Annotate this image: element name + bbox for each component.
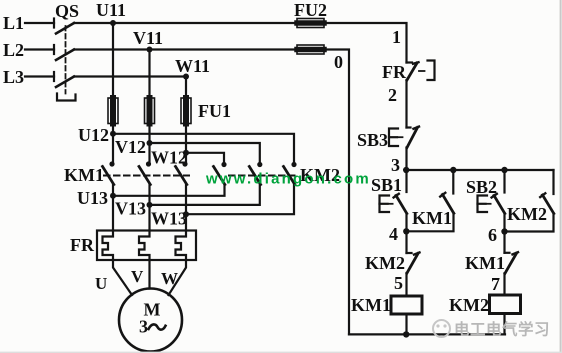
wire SB2 to node 6 <box>503 214 505 232</box>
svg-text:V: V <box>131 267 144 286</box>
contactor KM2 NC interlock <box>407 231 420 273</box>
wire phase line 1 to control <box>324 23 407 63</box>
wire W fuse to W12 <box>185 124 187 153</box>
contactor KM2 main contact 3 <box>284 162 297 185</box>
wire U13 to FR <box>112 196 114 231</box>
wire bottom rail <box>349 333 505 335</box>
switch QS linkage <box>57 26 76 101</box>
button SB1 NO start forward <box>380 194 407 214</box>
contactor KM1 main contact U <box>103 161 115 184</box>
svg-text:电工电气学习: 电工电气学习 <box>454 320 550 339</box>
fuse FU1 phase U <box>108 98 118 124</box>
svg-text:QS: QS <box>55 1 79 21</box>
thermal relay FR heater V <box>139 231 150 261</box>
contactor KM1 aux label <box>412 208 452 228</box>
svg-text:6: 6 <box>488 225 497 245</box>
svg-text:U13: U13 <box>77 188 108 208</box>
svg-text:KM2: KM2 <box>365 253 405 273</box>
contactor KM2 linkage <box>229 175 299 177</box>
contactor KM2 aux label <box>507 204 547 224</box>
node W12 <box>151 148 189 168</box>
wire to KM1 aux <box>452 170 454 194</box>
svg-text:L3: L3 <box>3 67 24 87</box>
svg-text:KM1: KM1 <box>351 295 391 315</box>
contactor KM2 auxiliary NO contact <box>540 193 554 213</box>
thermal relay FR box <box>97 231 196 261</box>
button SB1 label <box>371 175 402 195</box>
fuse FU2 label <box>294 0 327 20</box>
svg-text:L2: L2 <box>3 40 24 60</box>
contactor KM2 interlock label <box>365 253 405 273</box>
relay FR NC contact <box>407 62 419 80</box>
svg-text:0: 0 <box>334 52 343 72</box>
wire W12 to KM1 contact <box>185 153 187 164</box>
fuse FU2 upper <box>297 19 324 28</box>
svg-text:1: 1 <box>392 27 401 47</box>
wire L1 to FU2 <box>74 22 297 24</box>
wire FR to motor W <box>169 260 187 295</box>
wire KM1 V to V13 <box>148 185 150 205</box>
watermark green <box>205 171 371 188</box>
node U13 <box>77 188 116 208</box>
watermark logo <box>433 320 450 337</box>
wire V11 down <box>148 50 150 99</box>
contactor KM2 main contact 1 <box>214 162 227 185</box>
node bottom junction <box>403 331 409 337</box>
wire node3 to SB1 <box>405 170 407 192</box>
wire V13 to FR <box>148 205 150 231</box>
wire U12 cross to KM2 contact 3 <box>113 134 294 164</box>
svg-text:FU2: FU2 <box>294 0 327 20</box>
node 4 junction <box>389 224 409 244</box>
switch QS label <box>55 1 79 21</box>
wire U12 to KM1 contact <box>112 134 114 164</box>
node U11 <box>96 0 126 26</box>
wire KM2 NC to coil <box>405 273 407 296</box>
node 3 junction <box>403 167 409 173</box>
svg-text:U11: U11 <box>96 0 126 20</box>
wire U fuse to U12 <box>112 124 114 134</box>
node L2 label <box>3 40 24 60</box>
node W13 <box>151 209 189 229</box>
wire node3 rail to SB2 <box>503 170 505 193</box>
watermark gray text <box>454 320 550 339</box>
wire rail to KM2 aux <box>552 170 554 194</box>
wire KM1 aux to node 4 <box>407 213 454 231</box>
node 0 label <box>334 52 343 72</box>
svg-text:SB1: SB1 <box>371 175 402 195</box>
wire V12 to KM1 contact <box>148 143 150 164</box>
wire W11 down <box>185 77 187 99</box>
wire W12 cross to KM2 contact 1 <box>186 153 224 164</box>
switch QS pole 3 <box>54 72 74 87</box>
svg-text:FR: FR <box>70 235 95 255</box>
node W terminal label <box>161 269 178 288</box>
switch QS pole 1 <box>54 19 74 34</box>
wire FR to SB3 <box>405 80 407 128</box>
contactor KM1 interlock label <box>465 253 505 273</box>
node V12 <box>115 137 153 157</box>
contactor KM1 label <box>64 165 104 185</box>
svg-text:SB3: SB3 <box>357 130 388 150</box>
relay FR trip symbol <box>419 61 435 81</box>
svg-text:2: 2 <box>388 85 397 105</box>
wire KM2 contact 2 to V13 <box>150 185 260 205</box>
fuse FU1 phase W <box>181 98 191 124</box>
wire KM1 W to W13 <box>185 185 187 215</box>
node KM1 aux top junction <box>450 167 456 173</box>
wire W13 to FR <box>185 214 187 230</box>
svg-text:KM2: KM2 <box>507 204 547 224</box>
wire SB3 to node 3 <box>405 148 407 171</box>
svg-text:W13: W13 <box>151 209 187 229</box>
thermal relay FR label <box>70 235 95 255</box>
svg-text:3: 3 <box>391 155 400 175</box>
wire L1 input <box>25 22 54 24</box>
svg-text:V13: V13 <box>115 199 146 219</box>
node W11 <box>175 56 210 80</box>
contactor KM1 auxiliary NO contact <box>440 193 454 214</box>
svg-text:3: 3 <box>139 317 148 337</box>
node 1 label <box>392 27 401 47</box>
thermal relay FR heater U <box>103 231 114 261</box>
coil KM1 <box>351 295 422 315</box>
contactor KM1 linkage <box>104 175 189 177</box>
wire L3 input <box>25 75 54 77</box>
fuse FU1 phase V <box>145 98 155 124</box>
svg-text:KM1: KM1 <box>465 253 505 273</box>
contactor KM2 label <box>300 165 340 185</box>
node V terminal label <box>131 267 144 286</box>
switch QS pole 2 <box>54 45 74 60</box>
button SB2 NO start reverse <box>478 194 505 214</box>
wire U11 down <box>112 23 114 98</box>
node V11 <box>133 28 163 53</box>
contactor KM1 main contact W <box>176 161 188 184</box>
svg-text:V11: V11 <box>133 28 163 48</box>
svg-text:www.diangon.com: www.diangon.com <box>205 171 371 188</box>
relay FR contact label <box>382 62 407 82</box>
node L1 label <box>3 13 24 33</box>
wire KM2 aux to node 6 <box>505 214 554 232</box>
wire KM1 U to U13 <box>112 185 114 196</box>
wire V fuse to V12 <box>148 124 150 144</box>
svg-text:4: 4 <box>389 224 398 244</box>
wire SB1 to node 4 <box>405 214 407 232</box>
node 2 label <box>388 85 397 105</box>
svg-text:5: 5 <box>394 273 403 293</box>
wire L2 input <box>25 48 54 50</box>
node L3 label <box>3 67 24 87</box>
svg-text:FU1: FU1 <box>198 101 231 121</box>
coil KM2 <box>449 295 521 315</box>
contactor KM1 NC interlock <box>505 232 519 274</box>
svg-text:W11: W11 <box>175 56 210 76</box>
node V13 <box>115 199 153 219</box>
wire node 3 rail <box>407 169 554 171</box>
button SB2 label <box>466 177 497 197</box>
wire V12 cross to KM2 contact 2 <box>150 143 260 164</box>
contactor KM2 main contact 2 <box>249 162 262 185</box>
wire coil KM2 to bottom rail <box>503 314 505 335</box>
page bottom edge <box>0 351 562 353</box>
fuse FU1 label <box>198 101 231 121</box>
wire KM2 contact 3 to W13 <box>186 185 294 215</box>
wire L2 to FU2 <box>74 48 297 50</box>
wire L3 to W11 <box>74 75 186 77</box>
node 7 label <box>491 274 500 294</box>
svg-text:L1: L1 <box>3 13 24 33</box>
svg-text:V12: V12 <box>115 137 146 157</box>
svg-text:W12: W12 <box>151 148 187 168</box>
wire KM2 contact 1 to U13 <box>113 185 225 196</box>
svg-text:U: U <box>95 274 107 293</box>
wire FR to motor U <box>113 260 132 295</box>
svg-text:FR: FR <box>382 62 407 82</box>
button SB3 label <box>357 130 388 150</box>
node 3 label <box>391 155 400 175</box>
wire KM1 NC to coil <box>503 273 505 295</box>
node 6 junction <box>488 225 508 245</box>
button SB3 NC stop <box>389 127 419 148</box>
node 5 label <box>394 273 403 293</box>
svg-text:KM1: KM1 <box>64 165 104 185</box>
thermal relay FR heater W <box>176 231 187 261</box>
svg-text:SB2: SB2 <box>466 177 497 197</box>
motor M1 <box>119 289 182 352</box>
node SB2 top junction <box>501 167 507 173</box>
wire coil KM1 to bottom rail <box>405 314 407 334</box>
wire FR to motor V <box>148 260 150 289</box>
svg-text:W: W <box>161 269 178 288</box>
svg-text:KM2: KM2 <box>449 295 489 315</box>
svg-text:U12: U12 <box>78 125 109 145</box>
svg-text:7: 7 <box>491 274 500 294</box>
page right edge <box>560 0 562 353</box>
fuse FU2 lower <box>297 45 324 54</box>
node U12 <box>78 125 116 145</box>
node U terminal label <box>95 274 107 293</box>
wire neutral 0 down <box>324 50 349 335</box>
svg-text:KM1: KM1 <box>412 208 452 228</box>
contactor KM1 main contact V <box>139 161 151 184</box>
